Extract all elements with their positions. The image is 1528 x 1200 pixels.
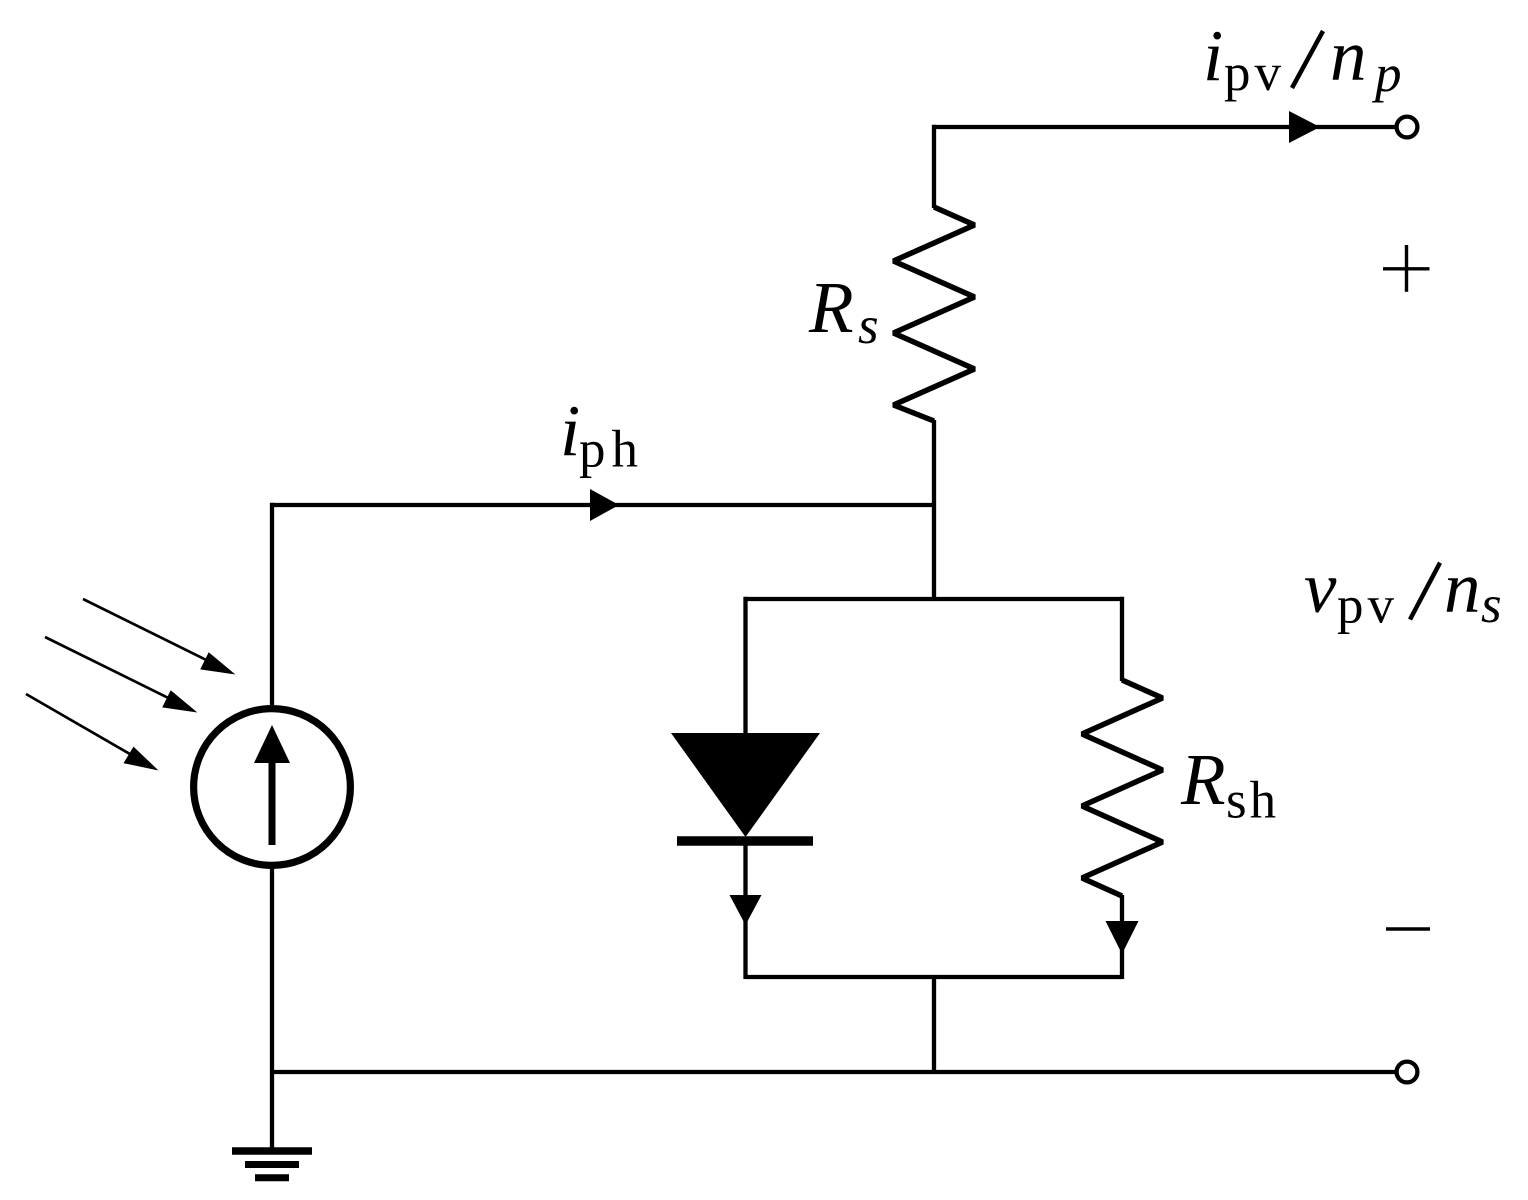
svg-text:i: i (1203, 15, 1223, 96)
current source circle (194, 709, 351, 866)
wire: diode branch lower lead (743, 841, 747, 979)
sun ray 1 (top) (83, 599, 210, 662)
svg-text:pv: pv (1337, 577, 1398, 635)
svg-text:sh: sh (1226, 772, 1279, 830)
label Rs (808, 267, 879, 355)
label ipv/np (1203, 15, 1402, 103)
ground symbol bar 1 (232, 1147, 312, 1155)
current source arrowhead (up) (254, 725, 290, 763)
arrowhead: iph current direction (590, 489, 619, 521)
svg-text:n: n (1444, 547, 1481, 628)
wire: Rs bottom to iph node and down to parallel section (932, 420, 936, 599)
diode D: filled triangle (671, 733, 820, 837)
svg-text:R: R (808, 267, 854, 348)
svg-text:R: R (1180, 739, 1226, 820)
wire: diode branch upper lead (743, 597, 747, 734)
wire: top output wire from Rs to positive terminal (934, 125, 1396, 129)
wire: iph horizontal wire from current source to Rs node (272, 503, 936, 507)
wire: from top wire down to resistor Rs (932, 125, 936, 208)
arrowhead: output current direction on top wire (1289, 111, 1320, 143)
terminal: positive output terminal (open circle) (1397, 117, 1418, 138)
svg-text:s: s (1481, 576, 1502, 634)
svg-text:p: p (1371, 45, 1402, 103)
current source arrow stem (269, 760, 276, 845)
arrowhead: diode branch current direction (down) (730, 895, 762, 925)
svg-text:n: n (1330, 15, 1367, 96)
svg-text:i: i (560, 390, 580, 471)
minus sign (1386, 927, 1430, 931)
wire: Rsh branch upper lead (1120, 597, 1124, 681)
label iph (560, 390, 644, 479)
svg-text:s: s (858, 297, 879, 355)
wire: bottom rail (272, 1070, 1396, 1074)
resistor Rsh zigzag (1082, 680, 1163, 896)
diode cathode bar (677, 836, 813, 846)
svg-text:ph: ph (579, 421, 644, 479)
svg-text:v: v (1304, 547, 1337, 628)
sun ray 3 (bottom) (26, 694, 134, 756)
wire: current source top lead (270, 503, 274, 710)
label vpv/ns (1304, 547, 1502, 635)
wire: bottom bar of parallel diode/Rsh section (746, 975, 1123, 979)
wire: top bar of parallel diode/Rsh section (746, 597, 1123, 601)
wire: current source bottom lead down to ground (270, 864, 274, 1149)
terminal: negative output terminal (open circle) (1397, 1062, 1418, 1083)
plus sign (1383, 245, 1430, 292)
arrowhead: Rsh branch current direction (down) (1106, 921, 1139, 954)
resistor Rs zigzag (894, 207, 975, 421)
ground symbol bar 2 (245, 1161, 299, 1168)
svg-text:pv: pv (1224, 44, 1285, 102)
wire: Rsh branch lower lead (1120, 895, 1124, 979)
sun ray 2 (middle) (45, 637, 172, 700)
label Rsh (1180, 739, 1279, 830)
ground symbol bar 3 (255, 1174, 289, 1181)
wire: from parallel section bottom down to ground rail (932, 977, 936, 1072)
